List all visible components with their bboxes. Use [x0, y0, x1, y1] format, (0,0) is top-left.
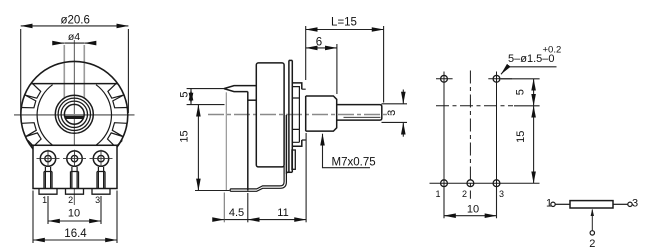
dim 5 ext bottom (shaft top projection): [187, 104, 225, 106]
cover (side): [256, 63, 284, 167]
label leader 5-d1.5: [501, 67, 557, 74]
dim 4.5 ext line left (gray): [223, 193, 225, 223]
collar: [299, 89, 305, 140]
dim 4.5/11 shared ext line: [247, 193, 249, 222]
rear body step: [248, 99, 256, 101]
svg-text:M7x0.75: M7x0.75: [332, 156, 376, 168]
dim 5 line: [533, 79, 535, 106]
dim dia4 arrows outside: [56, 42, 65, 44]
svg-text:10: 10: [68, 208, 80, 220]
svg-text:6: 6: [316, 36, 322, 48]
block chamfer left: [28, 140, 34, 146]
dim 5 ext top: [187, 88, 224, 90]
hole top-right: [493, 75, 500, 82]
dim dia20.6 ext left: [20, 29, 22, 113]
column line 3: [496, 72, 498, 198]
wiper arrow: [591, 210, 593, 231]
terminal 3 circle: [628, 202, 632, 206]
horizontal center line: [14, 114, 135, 116]
svg-text:11: 11: [277, 207, 288, 219]
ext lines right side: [501, 79, 540, 106]
wiper tab (pencil): [224, 86, 256, 92]
dim 15 line: [197, 105, 199, 191]
dim 10 line: [48, 220, 101, 222]
terminal 2 circle: [590, 231, 594, 235]
row line through bottom holes: [430, 182, 540, 184]
hole top-left: [441, 75, 448, 82]
right view dimensions: [444, 67, 557, 218]
column line 2 dashed: [469, 71, 471, 199]
crimp tabs around rim: [21, 83, 127, 148]
svg-text:ø20.6: ø20.6: [60, 15, 89, 27]
right view texts: [435, 45, 561, 216]
svg-text:3: 3: [499, 189, 504, 199]
svg-text:10: 10: [467, 204, 479, 216]
dim 10 line: [444, 215, 497, 217]
pin lug at x=48: [39, 167, 57, 194]
vertical center line: [73, 40, 75, 205]
shaft flat line: [344, 116, 381, 118]
dim 11 ext line right: [305, 133, 307, 222]
hole bottom-1: [441, 180, 448, 187]
svg-text:3: 3: [386, 110, 398, 116]
dia4 extension line right (gray): [83, 45, 85, 98]
svg-text:3: 3: [632, 198, 638, 210]
rear body face: [247, 92, 249, 191]
bushing M7: [306, 96, 337, 131]
eyelet terminal at x=74.5: [63, 150, 86, 167]
body outer circle: [21, 61, 128, 168]
dim 15 ext bottom: [195, 190, 230, 192]
cover inner circle (clipped by top chord): [37, 85, 111, 152]
dim dia20.6 line: [21, 25, 129, 27]
bushing circle r16.2: [58, 98, 90, 130]
hole bottom-2: [467, 180, 474, 187]
dim 15 line: [533, 106, 535, 183]
svg-text:1: 1: [435, 189, 440, 199]
block chamfer right: [117, 140, 123, 146]
hole bottom-3: [493, 180, 500, 187]
dim 6 line: [306, 47, 337, 49]
svg-text:5: 5: [515, 89, 527, 95]
plate bottom edge: [286, 171, 292, 173]
shaft flat chord (thick): [65, 116, 84, 119]
block top edge extended: [31, 144, 119, 146]
bracket step bottom: [292, 140, 302, 146]
pin 1 bent (side): [230, 166, 286, 191]
pin lug at x=101: [92, 167, 110, 194]
dim 10 ext: [444, 188, 497, 218]
terminal 1 circle: [551, 202, 555, 206]
svg-text:15: 15: [179, 130, 191, 142]
svg-text:16.4: 16.4: [64, 228, 87, 240]
dim 4.5 arrows outside: [214, 219, 225, 221]
dim 16.4 ext lines: [32, 191, 34, 244]
wire 1 to resistor: [555, 203, 570, 205]
dim 3 arrows outside: [402, 90, 404, 104]
svg-text:1: 1: [42, 195, 47, 205]
eyelet terminal at x=101: [90, 150, 113, 167]
dim 3 ext lines: [382, 104, 408, 123]
column line 1: [443, 72, 445, 198]
svg-text:2: 2: [462, 189, 467, 199]
svg-text:5: 5: [179, 91, 191, 97]
svg-text:L=15: L=15: [331, 17, 357, 29]
horizontal center line: [208, 114, 392, 116]
dim L=15 line: [306, 29, 384, 31]
dim 10 ext lines: [47, 196, 49, 224]
dim 6 ext line: [336, 44, 338, 94]
rear body left edge (faint): [225, 92, 227, 190]
svg-text:2: 2: [68, 195, 73, 205]
cover top chord: [31, 83, 118, 85]
M7x0.75 leader: [323, 134, 371, 168]
svg-text:15: 15: [515, 131, 527, 143]
svg-text:4.5: 4.5: [229, 207, 244, 219]
plate verticals: [289, 60, 292, 172]
svg-text:2: 2: [589, 238, 595, 250]
resistor body: [570, 201, 613, 208]
dim 5 line: [190, 89, 192, 105]
svg-text:+0.2: +0.2: [543, 45, 562, 56]
bracket step top: [292, 83, 302, 89]
axis dashed horizontal: [436, 105, 513, 107]
middle view texts: [179, 17, 399, 219]
svg-text:ø4: ø4: [68, 31, 80, 43]
left view texts: [42, 15, 100, 241]
shaft: [337, 105, 382, 121]
dim 11 line: [248, 219, 306, 221]
dim dia20.6 ext right: [127, 29, 129, 113]
eyelet terminal at x=48: [37, 150, 60, 167]
pin front edge behind cover: [285, 115, 287, 174]
pin lug at x=74.5: [66, 167, 84, 194]
wire resistor to 3: [613, 203, 628, 205]
middle view dimensions: [187, 26, 407, 222]
dim L=15 ext lines: [306, 26, 384, 103]
terminal block: [33, 145, 117, 188]
left view dimensions: [21, 26, 129, 243]
dia4 extension line left (gray): [63, 45, 65, 98]
bushing circle r13.2: [61, 101, 87, 127]
bushing circle r19: [55, 95, 93, 133]
shaft circle r9.9: [64, 104, 84, 124]
crimp tab rects on plate: [292, 87, 299, 143]
svg-text:3: 3: [95, 195, 100, 205]
svg-text:1: 1: [546, 198, 552, 210]
plate top cap: [289, 59, 292, 61]
dim 16.4 line: [33, 239, 117, 241]
pin2 stub behind plate: [292, 150, 295, 169]
